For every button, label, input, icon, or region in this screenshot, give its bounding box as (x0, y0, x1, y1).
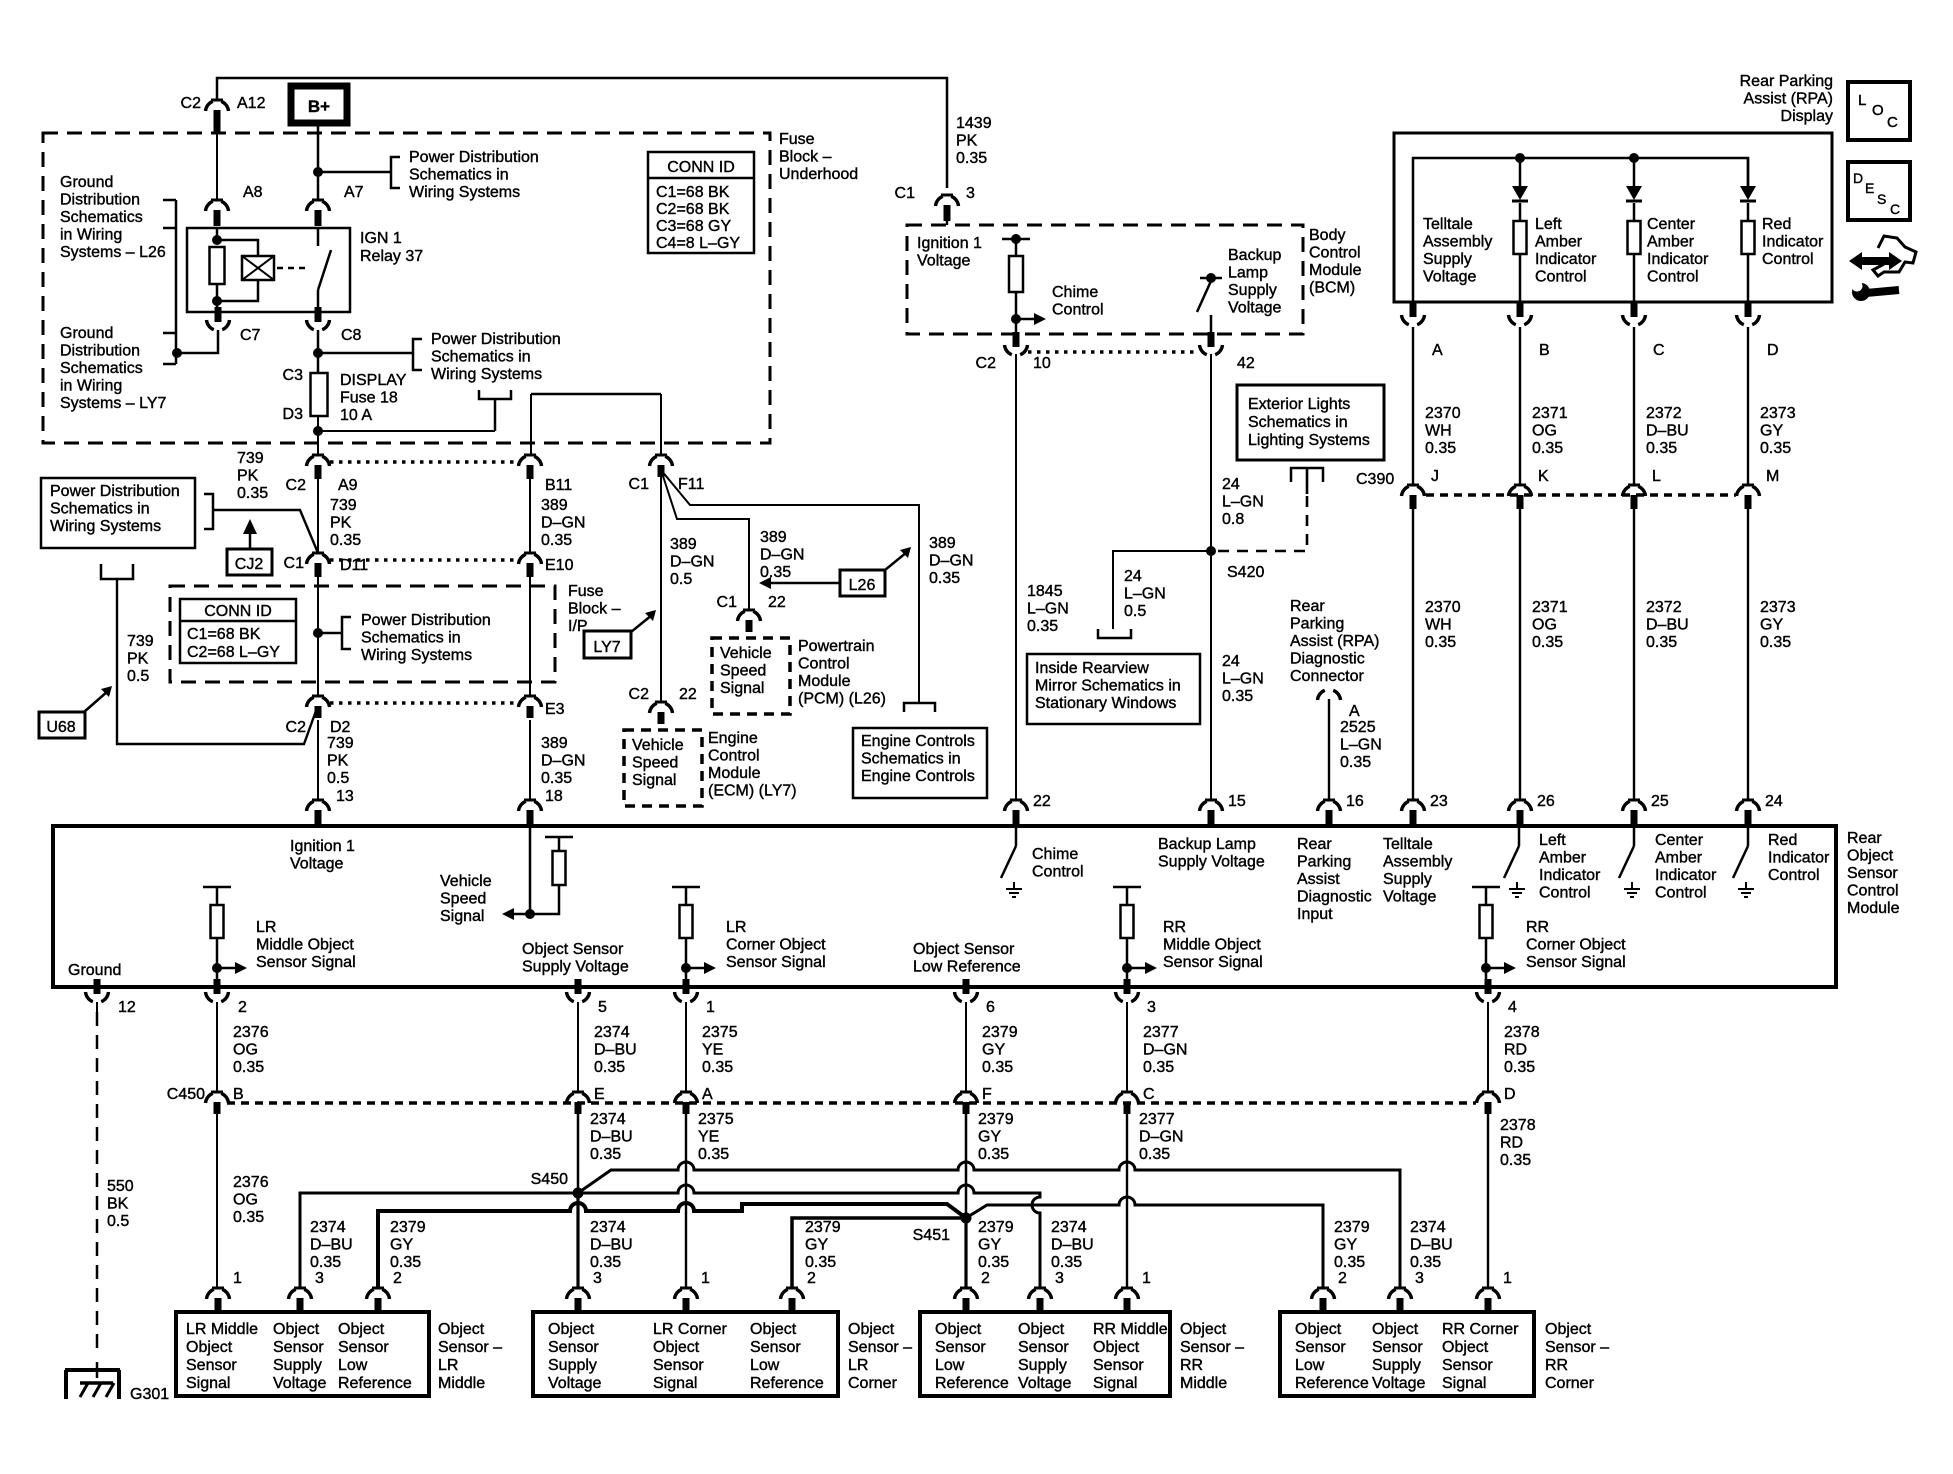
svg-text:2373: 2373 (1760, 599, 1796, 616)
svg-text:Object: Object (1442, 1339, 1489, 1356)
svg-text:C1=68 BK: C1=68 BK (187, 626, 261, 643)
svg-text:Signal: Signal (653, 1375, 697, 1392)
CONN ID table underhood (648, 152, 754, 253)
svg-text:0.5: 0.5 (127, 668, 149, 685)
svg-text:Middle Object: Middle Object (1163, 937, 1261, 954)
wire B+ to relay A7 (317, 121, 320, 200)
svg-text:A7: A7 (344, 184, 364, 201)
svg-text:Object: Object (1018, 1321, 1065, 1338)
connector C1 D11 (312, 552, 324, 555)
svg-text:RD: RD (1504, 1042, 1527, 1059)
connector sensor pin 3 at x=578 (572, 1287, 584, 1290)
splice S420 (1206, 546, 1216, 556)
dotted connector row D2-E3 (330, 701, 519, 705)
svg-text:Voltage: Voltage (1383, 889, 1436, 906)
wire S451 to LR corner pin 2 (792, 1218, 966, 1288)
B+ terminal box (291, 86, 347, 123)
svg-text:L–GN: L–GN (1340, 737, 1382, 754)
svg-text:C7: C7 (240, 327, 261, 344)
wire module pin 5 to C450 E (577, 1002, 579, 1092)
connector module pin 5 (bottom) (575, 979, 582, 994)
svg-text:M: M (1766, 468, 1779, 485)
ground distribution LY7 bracket (163, 333, 176, 364)
svg-text:Object: Object (848, 1321, 895, 1338)
svg-text:Indicator: Indicator (1647, 251, 1709, 268)
svg-text:3: 3 (1055, 1270, 1064, 1287)
svg-text:Chime: Chime (1032, 846, 1078, 863)
svg-text:Vehicle: Vehicle (720, 645, 772, 662)
sensor signal resistor at x=217 (203, 886, 231, 889)
svg-text:Power Distribution: Power Distribution (50, 483, 180, 500)
svg-text:3: 3 (593, 1270, 602, 1287)
switch to ground at x=1016 (1015, 826, 1018, 846)
svg-text:RR: RR (1163, 919, 1186, 936)
svg-text:OG: OG (233, 1192, 258, 1209)
svg-text:Voltage: Voltage (548, 1375, 601, 1392)
svg-text:0.35: 0.35 (1143, 1059, 1174, 1076)
svg-text:0.35: 0.35 (541, 532, 572, 549)
bracket under mid power distribution label (479, 390, 511, 399)
svg-text:Control: Control (1539, 885, 1591, 902)
svg-text:0.35: 0.35 (1646, 440, 1677, 457)
svg-text:Object: Object (438, 1321, 485, 1338)
svg-text:Middle Object: Middle Object (256, 937, 354, 954)
svg-text:2375: 2375 (702, 1024, 738, 1041)
relay coil branch (216, 228, 219, 240)
svg-text:Low Reference: Low Reference (913, 959, 1021, 976)
connector C450 D (1482, 1091, 1494, 1094)
svg-text:1: 1 (1503, 1270, 1512, 1287)
svg-text:C450: C450 (167, 1086, 205, 1103)
svg-text:Systems – L26: Systems – L26 (60, 244, 166, 261)
svg-text:24: 24 (1765, 793, 1783, 810)
svg-text:Rear: Rear (1847, 830, 1882, 847)
svg-text:Diagnostic: Diagnostic (1297, 889, 1372, 906)
svg-text:0.35: 0.35 (1425, 440, 1456, 457)
svg-text:2379: 2379 (805, 1219, 841, 1236)
connector module pin 25 (1628, 799, 1640, 802)
svg-text:15: 15 (1228, 793, 1246, 810)
svg-text:Block –: Block – (779, 149, 832, 166)
svg-text:Vehicle: Vehicle (632, 737, 684, 754)
dotted connector row A9-B11 (330, 460, 519, 464)
connector C8 (315, 307, 322, 322)
svg-text:Control: Control (1052, 302, 1104, 319)
wire RPA column M lower (1747, 507, 1749, 800)
svg-text:739: 739 (237, 450, 264, 467)
svg-text:389: 389 (929, 535, 956, 552)
svg-text:Input: Input (1297, 906, 1333, 923)
connector module pin 6 (bottom) (963, 979, 970, 994)
svg-text:Schematics in: Schematics in (431, 349, 531, 366)
connector sensor pin 3 at x=1040 (1034, 1287, 1046, 1290)
svg-text:Engine Controls: Engine Controls (861, 733, 975, 750)
svg-text:0.35: 0.35 (233, 1059, 264, 1076)
svg-text:Ignition 1: Ignition 1 (290, 838, 355, 855)
svg-text:Engine: Engine (708, 730, 758, 747)
svg-text:GY: GY (1334, 1237, 1357, 1254)
svg-text:12: 12 (118, 999, 136, 1016)
svg-text:Indicator: Indicator (1762, 234, 1824, 251)
bracket under power distribution box (101, 564, 133, 579)
svg-text:3: 3 (1415, 1270, 1424, 1287)
svg-text:25: 25 (1651, 793, 1669, 810)
wire C450 E to S450 (577, 1114, 580, 1193)
svg-text:GY: GY (1760, 617, 1783, 634)
wire RPA column J upper (1412, 327, 1414, 485)
connector L at C390 (1628, 484, 1640, 487)
svg-text:0.35: 0.35 (594, 1059, 625, 1076)
svg-text:2371: 2371 (1532, 405, 1568, 422)
svg-text:Lamp: Lamp (1228, 265, 1268, 282)
svg-text:A: A (1432, 342, 1443, 359)
svg-text:F11: F11 (678, 476, 704, 493)
switch to ground at x=1519 (1518, 826, 1521, 846)
svg-text:0.35: 0.35 (1532, 440, 1563, 457)
svg-text:Left: Left (1539, 832, 1566, 849)
connector C2 10 (1013, 332, 1020, 347)
svg-text:6: 6 (986, 999, 995, 1016)
svg-text:2377: 2377 (1139, 1111, 1175, 1128)
svg-text:2379: 2379 (978, 1111, 1014, 1128)
connector A7 (312, 199, 324, 202)
connector sensor pin 1 at x=686 (680, 1287, 692, 1290)
wrench icon (1866, 290, 1899, 293)
svg-text:2370: 2370 (1425, 405, 1461, 422)
svg-text:Rear Parking: Rear Parking (1740, 73, 1833, 90)
svg-text:0.5: 0.5 (1124, 603, 1146, 620)
wire S420 to inside rearview mirror (1113, 551, 1211, 629)
svg-text:Control: Control (1535, 269, 1587, 286)
svg-text:C: C (1143, 1086, 1155, 1103)
svg-text:L–GN: L–GN (1124, 586, 1166, 603)
svg-text:2374: 2374 (590, 1111, 626, 1128)
wire S420 dashed to C390 exterior lights (1218, 494, 1307, 551)
connector module pin 26 (1514, 799, 1526, 802)
object sensor LR corner box (533, 1312, 838, 1396)
connector pin 13 (312, 799, 324, 802)
svg-text:CJ2: CJ2 (235, 556, 264, 573)
svg-text:0.35: 0.35 (698, 1146, 729, 1163)
svg-text:Object: Object (750, 1321, 797, 1338)
svg-text:Object: Object (1545, 1321, 1592, 1338)
svg-text:L: L (1858, 92, 1866, 109)
svg-text:D3: D3 (283, 406, 304, 423)
connector sensor pin 2 at x=378 (372, 1287, 384, 1290)
svg-text:389: 389 (541, 735, 568, 752)
engine controls schematics box (853, 728, 987, 798)
label CJ2 with arrow (227, 549, 272, 575)
svg-text:Red: Red (1768, 832, 1797, 849)
svg-text:L26: L26 (849, 577, 876, 594)
svg-text:0.35: 0.35 (1222, 688, 1253, 705)
svg-text:1: 1 (233, 1270, 242, 1287)
svg-text:B: B (1539, 342, 1550, 359)
svg-text:Object: Object (338, 1321, 385, 1338)
connector module pin 3 (bottom) (1124, 979, 1131, 994)
svg-text:Exterior Lights: Exterior Lights (1248, 396, 1350, 413)
svg-text:Mirror Schematics in: Mirror Schematics in (1035, 678, 1181, 695)
fuse DISPLAY Fuse 18 10A (311, 373, 328, 416)
wire E3 to pin 18 (529, 720, 531, 800)
svg-text:2374: 2374 (1410, 1219, 1446, 1236)
svg-text:23: 23 (1430, 793, 1448, 810)
svg-text:Corner: Corner (848, 1375, 898, 1392)
vehicle speed signal branch (module) (529, 826, 532, 914)
svg-text:Engine Controls: Engine Controls (861, 768, 975, 785)
connector A RPA diagnostic (1318, 690, 1341, 700)
svg-text:Object: Object (1180, 1321, 1227, 1338)
wire S450 right branch to RR middle pin 3 (2374) (578, 1185, 1040, 1288)
svg-text:0.35: 0.35 (978, 1254, 1009, 1271)
svg-text:0.35: 0.35 (929, 570, 960, 587)
svg-text:Control: Control (798, 656, 850, 673)
svg-text:L–GN: L–GN (1222, 671, 1264, 688)
svg-text:Fuse 18: Fuse 18 (340, 390, 398, 407)
svg-text:Backup Lamp: Backup Lamp (1158, 836, 1256, 853)
connector C2 22 (ECM) (655, 701, 667, 704)
svg-text:Middle: Middle (1180, 1375, 1227, 1392)
svg-text:C2: C2 (286, 719, 307, 736)
wire C7 to ground distribution (177, 330, 218, 353)
wire RPA column M upper (1747, 327, 1749, 485)
svg-text:GY: GY (978, 1129, 1001, 1146)
svg-text:Object: Object (1093, 1339, 1140, 1356)
svg-text:0.35: 0.35 (956, 150, 987, 167)
svg-text:E3: E3 (545, 701, 565, 718)
label U68 with arrow (39, 712, 85, 738)
connector C450 F (960, 1091, 972, 1094)
svg-text:in Wiring: in Wiring (60, 227, 122, 244)
svg-text:Object: Object (1295, 1321, 1342, 1338)
svg-text:GY: GY (1760, 423, 1783, 440)
svg-text:C2: C2 (976, 355, 997, 372)
node junction at A7 branch (313, 167, 323, 177)
CONN ID table I/P (180, 599, 296, 663)
svg-text:Speed: Speed (440, 891, 486, 908)
svg-text:Module: Module (1309, 262, 1362, 279)
svg-text:Object: Object (186, 1339, 233, 1356)
svg-text:2374: 2374 (594, 1024, 630, 1041)
wire S451 left branch to LR middle pin 2 (2379) (378, 1203, 966, 1288)
svg-text:Distribution: Distribution (60, 343, 140, 360)
svg-text:Low: Low (1295, 1357, 1325, 1374)
svg-text:YE: YE (702, 1042, 723, 1059)
svg-text:Systems – LY7: Systems – LY7 (60, 395, 167, 412)
svg-text:D–BU: D–BU (1646, 423, 1689, 440)
connector C450 C (1121, 1091, 1133, 1094)
svg-text:Sensor Signal: Sensor Signal (1526, 954, 1626, 971)
svg-text:0.35: 0.35 (590, 1146, 621, 1163)
svg-text:C2: C2 (286, 477, 307, 494)
svg-text:Wiring Systems: Wiring Systems (361, 647, 472, 664)
svg-text:16: 16 (1346, 793, 1364, 810)
svg-text:C8: C8 (341, 327, 362, 344)
svg-text:Supply: Supply (1423, 251, 1472, 268)
svg-text:24: 24 (1222, 476, 1240, 493)
relay switch dashed link (277, 267, 308, 270)
vehicle outline icon (1873, 236, 1916, 276)
svg-text:S451: S451 (913, 1227, 950, 1244)
svg-text:Module: Module (1847, 900, 1900, 917)
dashed connector row C450 (227, 1101, 1476, 1105)
svg-text:G301: G301 (130, 1386, 169, 1403)
svg-text:A9: A9 (338, 477, 358, 494)
svg-text:DISPLAY: DISPLAY (340, 372, 407, 389)
svg-text:E10: E10 (545, 557, 574, 574)
svg-text:RD: RD (1500, 1135, 1523, 1152)
wire C450 F to S451 (965, 1114, 968, 1218)
svg-text:Fuse: Fuse (779, 131, 815, 148)
svg-text:RR Middle: RR Middle (1093, 1321, 1168, 1338)
svg-text:Control: Control (1032, 864, 1084, 881)
svg-text:22: 22 (679, 686, 697, 703)
svg-text:A: A (702, 1086, 713, 1103)
bracket ref power distribution (mid) (413, 339, 422, 370)
relay resistor (210, 247, 225, 284)
svg-text:Voltage: Voltage (1228, 300, 1281, 317)
wire S450 down to LR corner pin 3 (2374) (576, 1193, 579, 1288)
bracket right of power distribution box (204, 494, 213, 529)
svg-text:L–GN: L–GN (1222, 494, 1264, 511)
connector C450 B (211, 1091, 223, 1094)
svg-text:Schematics in: Schematics in (361, 630, 461, 647)
svg-text:2377: 2377 (1143, 1024, 1179, 1041)
svg-text:Power Distribution: Power Distribution (409, 149, 539, 166)
svg-text:0.35: 0.35 (805, 1254, 836, 1271)
sensor signal resistor at x=1486 (1472, 886, 1500, 889)
connector sensor pin 2 at x=966 (960, 1287, 972, 1290)
svg-text:Reference: Reference (935, 1375, 1009, 1392)
svg-text:Display: Display (1781, 108, 1833, 125)
wire S450 to LR middle pin 3 (2374) (300, 1193, 578, 1288)
ground G301 symbol (96, 1362, 99, 1378)
wire power distribution to D11 (213, 510, 318, 553)
wire 550 BK ground dashed (96, 1002, 98, 1012)
svg-text:C2: C2 (629, 686, 650, 703)
svg-text:Sensor Signal: Sensor Signal (726, 954, 826, 971)
object sensor RR middle box (920, 1312, 1170, 1396)
svg-text:Schematics in: Schematics in (1248, 414, 1348, 431)
svg-text:J: J (1431, 468, 1439, 485)
svg-text:Voltage: Voltage (273, 1375, 326, 1392)
connector A (RPA) (1410, 302, 1417, 317)
svg-text:Supply: Supply (548, 1357, 597, 1374)
svg-text:Sensor –: Sensor – (1180, 1339, 1244, 1356)
svg-text:2: 2 (981, 1270, 990, 1287)
svg-text:Parking: Parking (1297, 854, 1351, 871)
svg-text:18: 18 (545, 788, 563, 805)
svg-text:Sensor Signal: Sensor Signal (1163, 954, 1263, 971)
svg-text:3: 3 (1147, 999, 1156, 1016)
svg-text:Sensor: Sensor (186, 1357, 237, 1374)
svg-text:Sensor: Sensor (1295, 1339, 1346, 1356)
svg-text:2525: 2525 (1340, 719, 1376, 736)
svg-text:Control: Control (1768, 867, 1820, 884)
svg-text:Control: Control (1847, 883, 1899, 900)
svg-text:Module: Module (798, 673, 851, 690)
svg-text:10 A: 10 A (340, 407, 372, 424)
svg-text:2379: 2379 (978, 1219, 1014, 1236)
svg-text:0.5: 0.5 (327, 770, 349, 787)
connector 42 (1208, 332, 1215, 347)
svg-text:B: B (233, 1086, 244, 1103)
svg-text:A12: A12 (237, 95, 266, 112)
inside rearview mirror box (1027, 654, 1200, 724)
sensor signal resistor at x=1127 (1113, 886, 1141, 889)
wire A9 to D11 (317, 478, 319, 553)
svg-text:0.35: 0.35 (1760, 440, 1791, 457)
connector C450 A (680, 1091, 692, 1094)
splice S450 (573, 1188, 584, 1199)
svg-text:Indicator: Indicator (1655, 867, 1717, 884)
svg-text:Supply: Supply (1383, 871, 1432, 888)
svg-text:0.5: 0.5 (670, 571, 692, 588)
svg-text:0.35: 0.35 (330, 532, 361, 549)
svg-text:D–GN: D–GN (670, 554, 714, 571)
connector module pin 12 (bottom) (94, 979, 101, 994)
svg-text:0.35: 0.35 (1425, 634, 1456, 651)
connector module pin 24 (1742, 799, 1754, 802)
svg-text:Indicator: Indicator (1535, 251, 1597, 268)
svg-text:D: D (1853, 170, 1863, 186)
connector C450 E (572, 1091, 584, 1094)
svg-text:Sensor: Sensor (338, 1339, 389, 1356)
svg-text:22: 22 (768, 594, 786, 611)
svg-text:WH: WH (1425, 617, 1452, 634)
svg-text:0.35: 0.35 (702, 1059, 733, 1076)
connector sensor pin 1 at x=218 (212, 1287, 224, 1290)
svg-text:Corner: Corner (1545, 1375, 1595, 1392)
svg-text:2379: 2379 (1334, 1219, 1370, 1236)
connector C2 D2 with pass-through slash (312, 695, 324, 698)
svg-text:Red: Red (1762, 216, 1791, 233)
svg-text:Amber: Amber (1655, 850, 1703, 867)
svg-text:LR: LR (438, 1357, 458, 1374)
wire RPA column K upper (1519, 327, 1521, 485)
connector pin 18 (524, 799, 536, 802)
connector sensor pin 2 at x=792 (786, 1287, 798, 1290)
svg-text:Sensor Signal: Sensor Signal (256, 954, 356, 971)
connector module pin 2 (bottom) (214, 979, 221, 994)
wire D2 to pin 13 (317, 720, 319, 800)
svg-text:Control: Control (1762, 251, 1814, 268)
svg-text:Reference: Reference (1295, 1375, 1369, 1392)
svg-text:26: 26 (1537, 793, 1555, 810)
svg-text:3: 3 (315, 1270, 324, 1287)
svg-text:Control: Control (1309, 245, 1361, 262)
svg-text:Object: Object (273, 1321, 320, 1338)
wire RPA column L upper (1633, 327, 1635, 485)
svg-text:C1: C1 (717, 594, 738, 611)
svg-text:42: 42 (1237, 355, 1255, 372)
svg-text:Distribution: Distribution (60, 192, 140, 209)
svg-text:2374: 2374 (1051, 1219, 1087, 1236)
svg-text:L: L (1652, 468, 1661, 485)
svg-text:2374: 2374 (590, 1219, 626, 1236)
svg-text:D–GN: D–GN (1139, 1129, 1183, 1146)
svg-text:Sensor: Sensor (1018, 1339, 1069, 1356)
resistor red indicator (1742, 221, 1755, 254)
bracket inside rearview mirror (1098, 629, 1131, 638)
svg-text:Center: Center (1655, 832, 1704, 849)
svg-text:2370: 2370 (1425, 599, 1461, 616)
svg-text:Object: Object (1372, 1321, 1419, 1338)
svg-text:D–BU: D–BU (590, 1129, 633, 1146)
svg-text:D11: D11 (340, 557, 368, 574)
vehicle speed signal box (PCM) dashed (712, 638, 790, 714)
svg-text:C1=68 BK: C1=68 BK (656, 184, 730, 201)
